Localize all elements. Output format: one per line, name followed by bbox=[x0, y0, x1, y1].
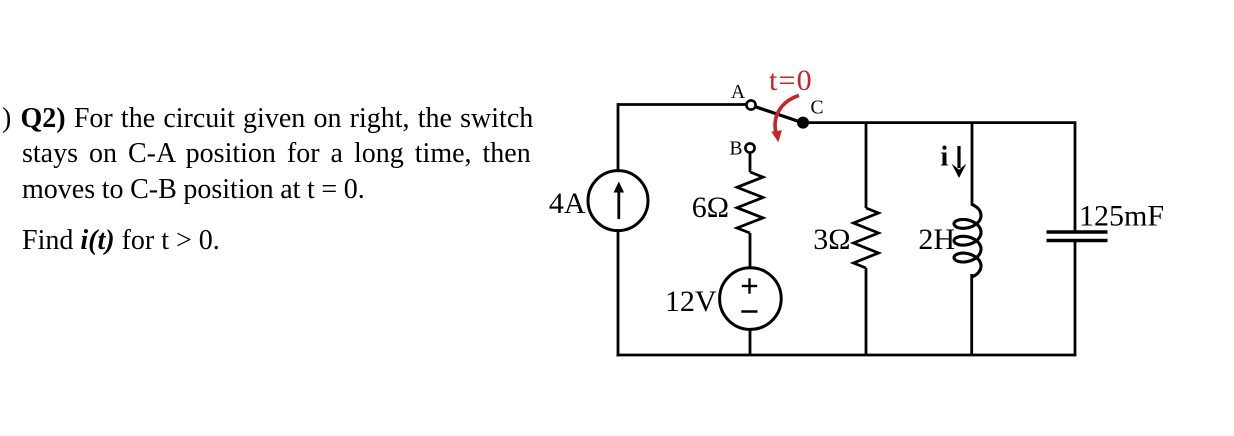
wire resistor to 12V source bbox=[749, 233, 752, 268]
svg-text:125mF: 125mF bbox=[1079, 200, 1164, 233]
wire bottom horizontal bbox=[617, 354, 1077, 357]
svg-text:C: C bbox=[811, 97, 824, 118]
capacitor C 125mF plates bbox=[1047, 232, 1108, 241]
minus sign bbox=[741, 310, 757, 312]
svg-text:t=0: t=0 bbox=[769, 64, 813, 97]
svg-text:6Ω: 6Ω bbox=[692, 191, 729, 224]
svg-text:A: A bbox=[731, 82, 745, 103]
wire top-left horizontal bbox=[618, 103, 747, 106]
wire left vertical upper bbox=[617, 103, 620, 170]
svg-text:4A: 4A bbox=[549, 187, 586, 220]
current arrow down bbox=[957, 146, 960, 168]
wire right vertical upper bbox=[1074, 123, 1077, 231]
wire 3-ohm branch upper bbox=[865, 123, 868, 208]
svg-text:i: i bbox=[941, 142, 949, 173]
wire node B to 6-ohm resistor bbox=[749, 153, 752, 172]
wire left vertical lower bbox=[617, 231, 620, 356]
current source arrow bbox=[617, 190, 620, 219]
resistor R 3ohm zigzag bbox=[854, 208, 879, 268]
switch node B open circle bbox=[745, 143, 754, 152]
wire top-right horizontal bbox=[803, 121, 1076, 124]
wire 2H branch upper bbox=[971, 123, 974, 206]
current source I 4A circle bbox=[588, 171, 648, 231]
svg-text:2H: 2H bbox=[918, 223, 955, 256]
wire right vertical lower bbox=[1074, 242, 1077, 356]
switch node A open circle bbox=[746, 100, 755, 109]
svg-text:B: B bbox=[730, 138, 743, 159]
wire 2H branch lower bbox=[970, 274, 973, 355]
wire 3-ohm branch lower bbox=[865, 268, 868, 355]
wire 12V source to bottom bbox=[749, 330, 752, 356]
inductor L 2H coil bbox=[954, 204, 981, 277]
resistor R 6ohm zigzag bbox=[737, 172, 763, 233]
red switching arrow t=0 bbox=[775, 96, 799, 133]
switch node C filled dot bbox=[797, 117, 809, 129]
problem statement text bbox=[2, 105, 533, 133]
voltage source V 12V circle bbox=[720, 268, 782, 330]
switch blade A to C bbox=[756, 107, 799, 122]
plus sign bbox=[741, 278, 757, 311]
svg-text:3Ω: 3Ω bbox=[813, 223, 850, 256]
svg-text:12V: 12V bbox=[665, 285, 717, 318]
